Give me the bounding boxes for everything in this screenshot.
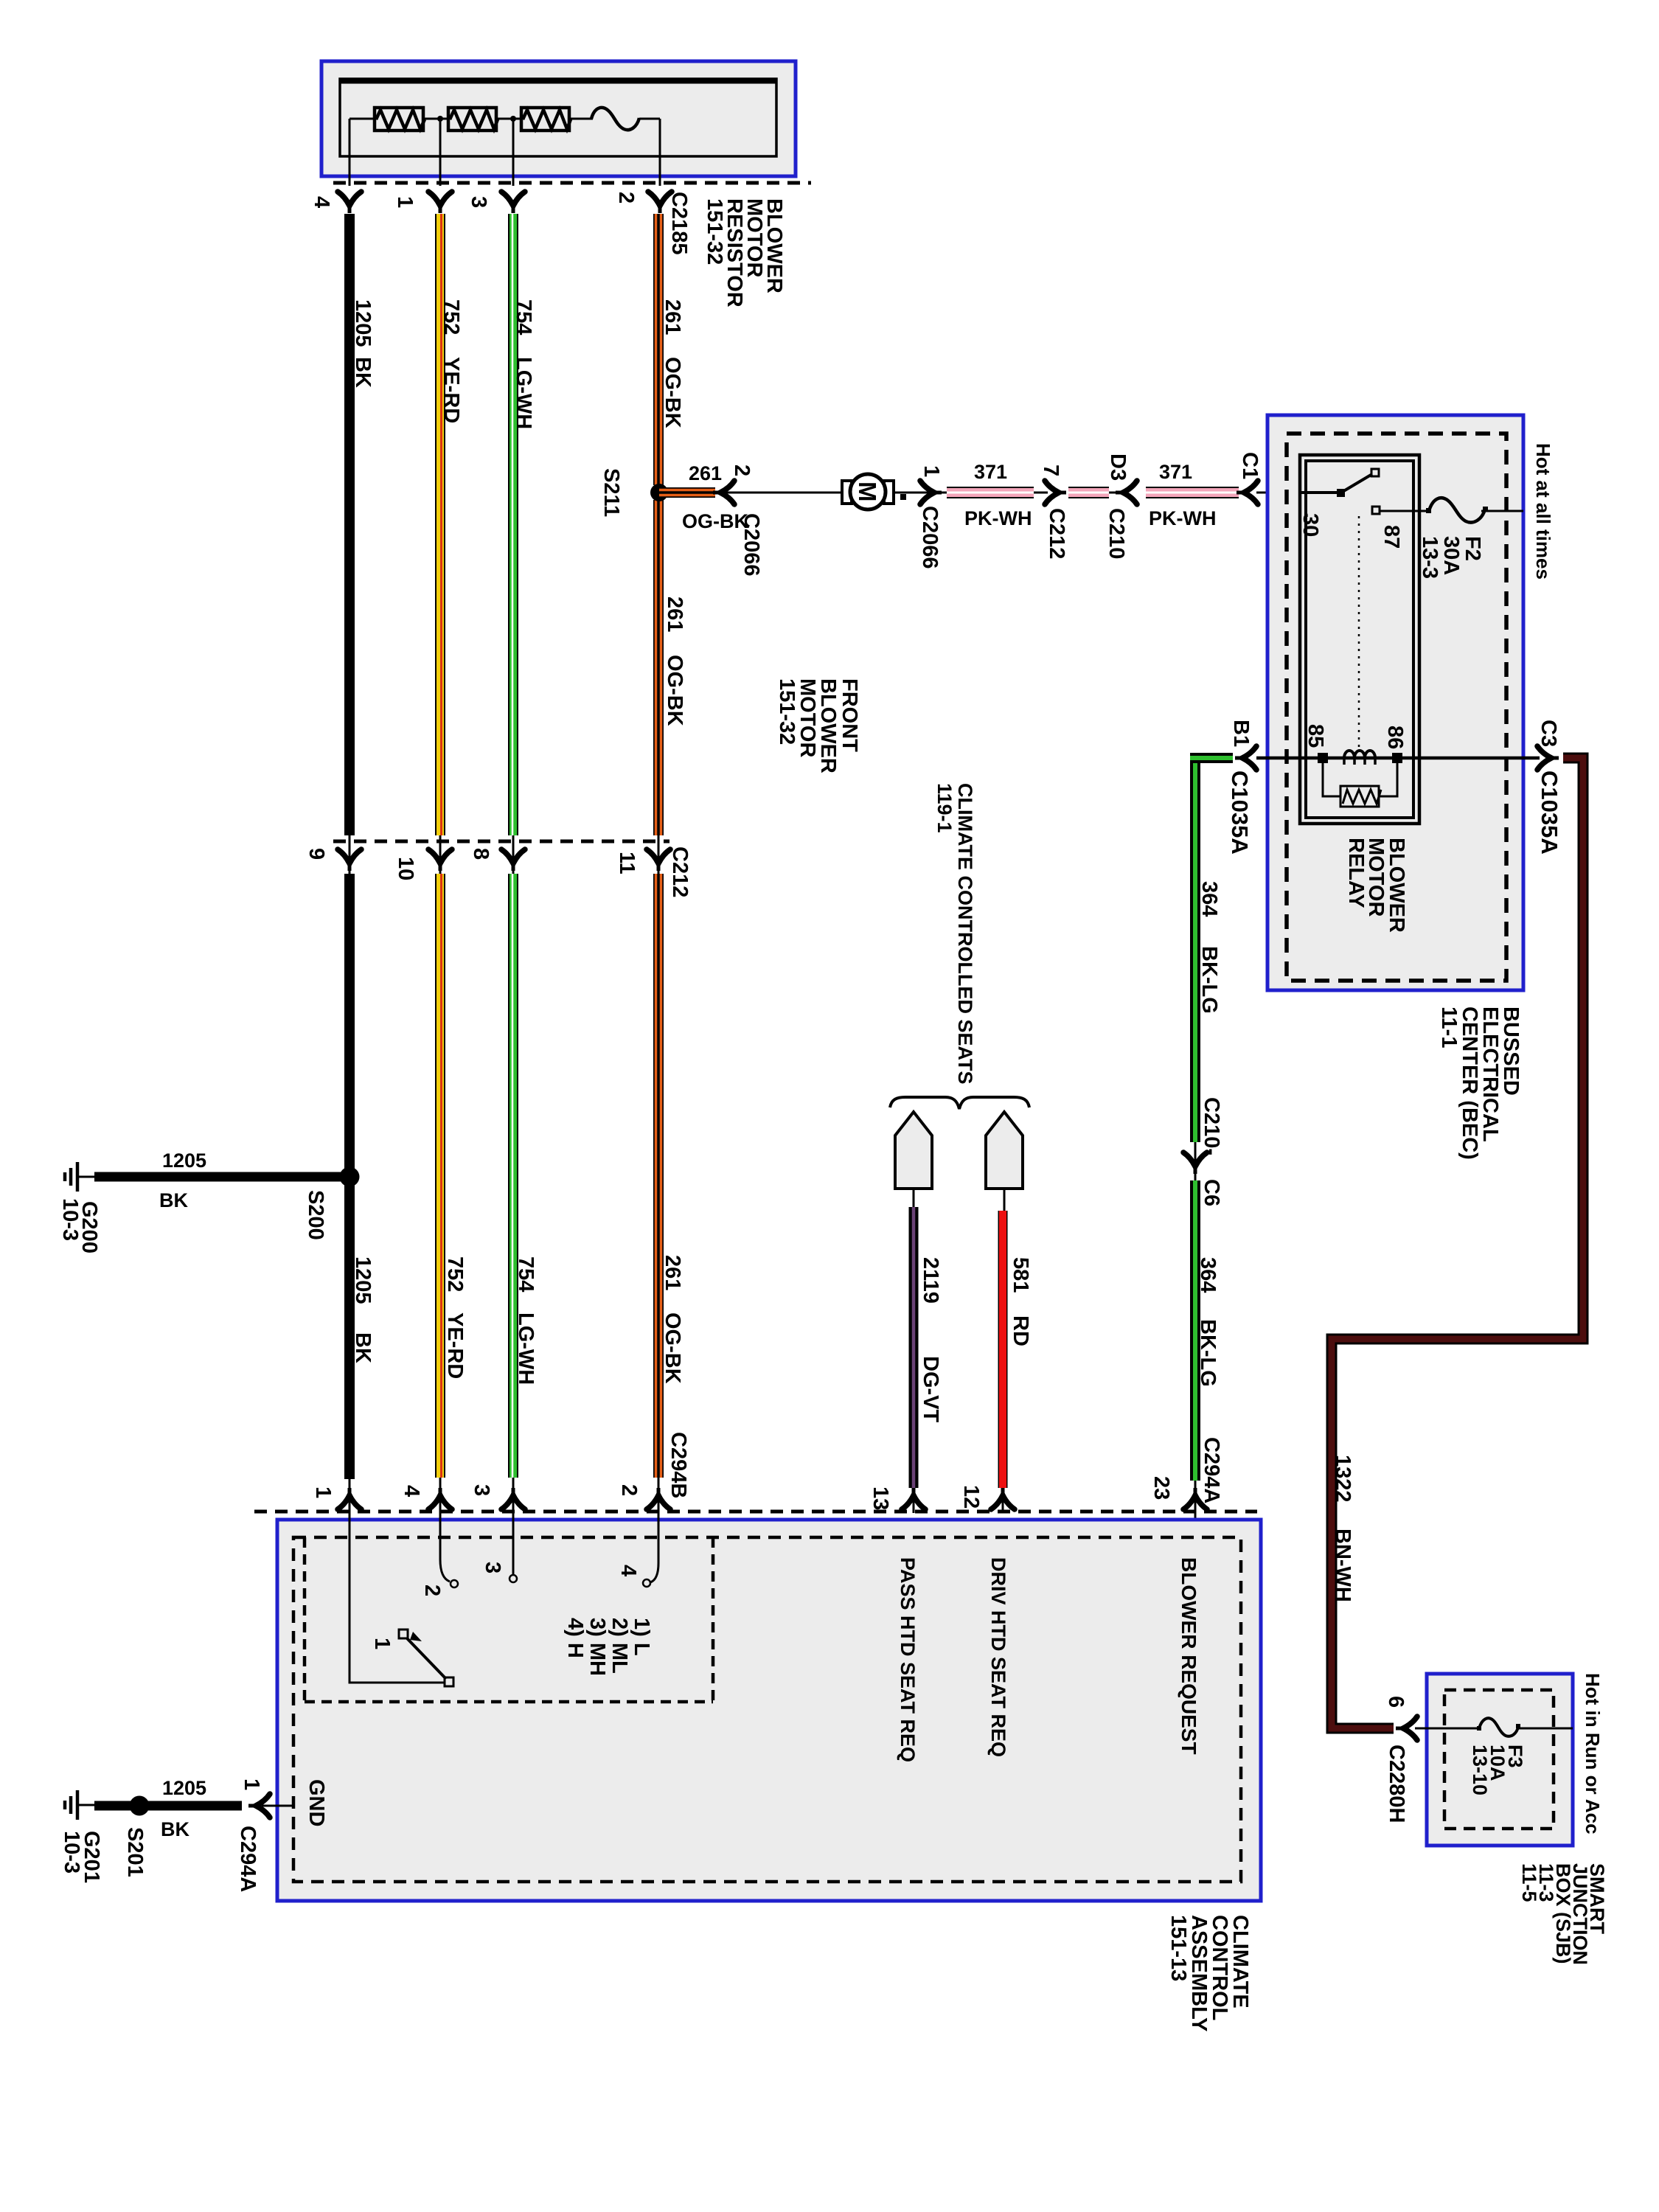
- svg-text:CONTROL: CONTROL: [1208, 1915, 1231, 2020]
- svg-text:Hot at all times: Hot at all times: [1532, 443, 1554, 580]
- svg-text:151-32: 151-32: [775, 678, 799, 745]
- svg-text:3) MH: 3) MH: [585, 1618, 609, 1676]
- svg-text:C2280H: C2280H: [1385, 1745, 1408, 1823]
- svg-text:BK: BK: [351, 357, 375, 388]
- svg-text:2: 2: [730, 465, 754, 476]
- svg-text:261: 261: [661, 299, 684, 335]
- svg-text:1: 1: [393, 196, 417, 208]
- svg-text:2) ML: 2) ML: [608, 1618, 631, 1674]
- svg-text:BK: BK: [161, 1818, 189, 1840]
- svg-text:8: 8: [469, 848, 493, 860]
- svg-text:13-3: 13-3: [1418, 536, 1441, 579]
- svg-text:C294A: C294A: [236, 1826, 260, 1892]
- svg-text:C294B: C294B: [667, 1432, 690, 1498]
- svg-text:1205: 1205: [351, 1256, 375, 1304]
- svg-text:DRIV HTD SEAT REQ: DRIV HTD SEAT REQ: [987, 1557, 1009, 1757]
- svg-text:10-3: 10-3: [60, 1831, 83, 1874]
- svg-text:2: 2: [420, 1585, 444, 1596]
- svg-text:C210: C210: [1105, 508, 1128, 559]
- svg-text:9: 9: [305, 848, 328, 860]
- svg-text:S200: S200: [304, 1190, 327, 1240]
- svg-text:C2066: C2066: [740, 513, 763, 576]
- svg-text:85: 85: [1304, 724, 1327, 748]
- svg-text:C1035A: C1035A: [1227, 771, 1253, 855]
- svg-text:4: 4: [310, 196, 333, 208]
- svg-text:LG-WH: LG-WH: [514, 1312, 538, 1385]
- svg-text:3: 3: [470, 1484, 493, 1496]
- svg-text:YE-RD: YE-RD: [443, 1312, 467, 1379]
- svg-text:6: 6: [1384, 1696, 1408, 1708]
- svg-text:2: 2: [614, 192, 638, 204]
- svg-text:C3: C3: [1537, 720, 1560, 747]
- svg-text:ELECTRICAL: ELECTRICAL: [1478, 1006, 1502, 1142]
- svg-text:261: 261: [663, 597, 686, 632]
- svg-text:CLIMATE: CLIMATE: [1228, 1915, 1252, 2008]
- svg-text:87: 87: [1380, 525, 1403, 549]
- svg-text:364: 364: [1196, 1257, 1220, 1293]
- svg-text:151-13: 151-13: [1166, 1915, 1190, 1981]
- svg-text:BN-WH: BN-WH: [1331, 1528, 1354, 1602]
- svg-text:C294A: C294A: [1200, 1437, 1223, 1503]
- svg-text:10: 10: [394, 857, 417, 880]
- svg-text:BLOWER REQUEST: BLOWER REQUEST: [1178, 1557, 1200, 1755]
- svg-text:C212: C212: [1045, 508, 1068, 559]
- svg-text:C1035A: C1035A: [1537, 771, 1562, 855]
- svg-text:PASS HTD SEAT REQ: PASS HTD SEAT REQ: [897, 1557, 919, 1762]
- svg-text:RD: RD: [1009, 1315, 1032, 1346]
- svg-text:12: 12: [959, 1485, 983, 1509]
- svg-text:OG-BK: OG-BK: [661, 1312, 684, 1384]
- svg-text:581: 581: [1009, 1257, 1032, 1293]
- svg-text:CLIMATE CONTROLLED SEATS: CLIMATE CONTROLLED SEATS: [954, 783, 976, 1084]
- svg-text:3: 3: [467, 196, 490, 208]
- svg-text:DG-VT: DG-VT: [919, 1356, 942, 1423]
- svg-text:C1: C1: [1238, 452, 1262, 479]
- svg-text:1205: 1205: [351, 299, 375, 347]
- svg-text:754: 754: [514, 1256, 538, 1292]
- svg-text:YE-RD: YE-RD: [439, 357, 463, 423]
- svg-text:11: 11: [615, 852, 639, 874]
- svg-text:BK: BK: [351, 1332, 375, 1363]
- svg-text:FRONT: FRONT: [838, 678, 861, 752]
- svg-text:151-32: 151-32: [703, 198, 726, 265]
- svg-text:BLOWER: BLOWER: [1385, 838, 1408, 933]
- svg-text:S201: S201: [123, 1827, 147, 1877]
- svg-text:1: 1: [919, 465, 943, 477]
- svg-text:OG-BK: OG-BK: [661, 357, 684, 428]
- svg-text:752: 752: [439, 299, 463, 335]
- svg-text:C2185: C2185: [667, 192, 691, 254]
- svg-text:752: 752: [443, 1256, 467, 1292]
- svg-text:364: 364: [1197, 881, 1221, 917]
- svg-text:MOTOR: MOTOR: [1364, 838, 1388, 917]
- svg-text:C210-: C210-: [1200, 1097, 1223, 1155]
- svg-text:OG-BK: OG-BK: [682, 510, 748, 532]
- svg-text:BK: BK: [159, 1189, 188, 1211]
- svg-text:13-10: 13-10: [1469, 1745, 1491, 1795]
- svg-text:13: 13: [869, 1486, 892, 1510]
- svg-text:1322: 1322: [1331, 1455, 1354, 1503]
- svg-text:S211: S211: [599, 468, 623, 517]
- svg-text:C212: C212: [668, 846, 692, 897]
- svg-text:261: 261: [661, 1255, 684, 1290]
- svg-text:GND: GND: [305, 1779, 328, 1826]
- svg-text:BK-LG: BK-LG: [1197, 946, 1221, 1014]
- svg-text:30: 30: [1298, 513, 1322, 537]
- svg-text:119-1: 119-1: [933, 783, 956, 833]
- svg-text:2: 2: [617, 1484, 641, 1496]
- svg-text:D3: D3: [1106, 453, 1130, 481]
- svg-text:4) H: 4) H: [563, 1618, 587, 1658]
- svg-text:BK-LG: BK-LG: [1196, 1319, 1220, 1387]
- svg-text:SMART: SMART: [1586, 1863, 1608, 1934]
- svg-text:11-1: 11-1: [1437, 1006, 1461, 1048]
- svg-text:371: 371: [1159, 461, 1192, 483]
- svg-text:ASSEMBLY: ASSEMBLY: [1187, 1915, 1211, 2031]
- svg-text:23: 23: [1150, 1476, 1173, 1500]
- svg-text:754: 754: [512, 299, 535, 335]
- svg-text:1: 1: [311, 1486, 335, 1498]
- svg-text:1205: 1205: [162, 1777, 206, 1799]
- svg-text:CENTER (BEC): CENTER (BEC): [1458, 1006, 1481, 1160]
- svg-text:B1: B1: [1229, 720, 1253, 747]
- svg-text:PK-WH: PK-WH: [1149, 507, 1216, 529]
- svg-text:C2066: C2066: [918, 506, 942, 568]
- svg-text:10-3: 10-3: [58, 1198, 82, 1241]
- svg-text:M: M: [854, 481, 881, 502]
- svg-text:1) L: 1) L: [630, 1618, 653, 1656]
- svg-text:PK-WH: PK-WH: [964, 507, 1032, 529]
- svg-text:3: 3: [481, 1562, 504, 1573]
- svg-text:OG-BK: OG-BK: [663, 655, 686, 726]
- svg-text:371: 371: [974, 461, 1007, 483]
- svg-text:1: 1: [370, 1638, 394, 1649]
- svg-text:86: 86: [1383, 726, 1407, 749]
- svg-text:LG-WH: LG-WH: [512, 357, 535, 429]
- svg-text:4: 4: [616, 1565, 640, 1576]
- svg-text:30A: 30A: [1439, 536, 1463, 575]
- svg-text:1: 1: [240, 1778, 263, 1790]
- svg-text:1205: 1205: [162, 1150, 206, 1172]
- svg-text:4: 4: [400, 1485, 423, 1497]
- svg-text:261: 261: [689, 462, 722, 484]
- svg-text:2119: 2119: [919, 1257, 942, 1304]
- svg-text:BUSSED: BUSSED: [1499, 1006, 1523, 1096]
- svg-text:C6: C6: [1200, 1179, 1223, 1206]
- svg-text:7: 7: [1039, 465, 1062, 476]
- svg-text:Hot in Run or Acc: Hot in Run or Acc: [1582, 1673, 1604, 1834]
- svg-text:F2: F2: [1461, 536, 1484, 561]
